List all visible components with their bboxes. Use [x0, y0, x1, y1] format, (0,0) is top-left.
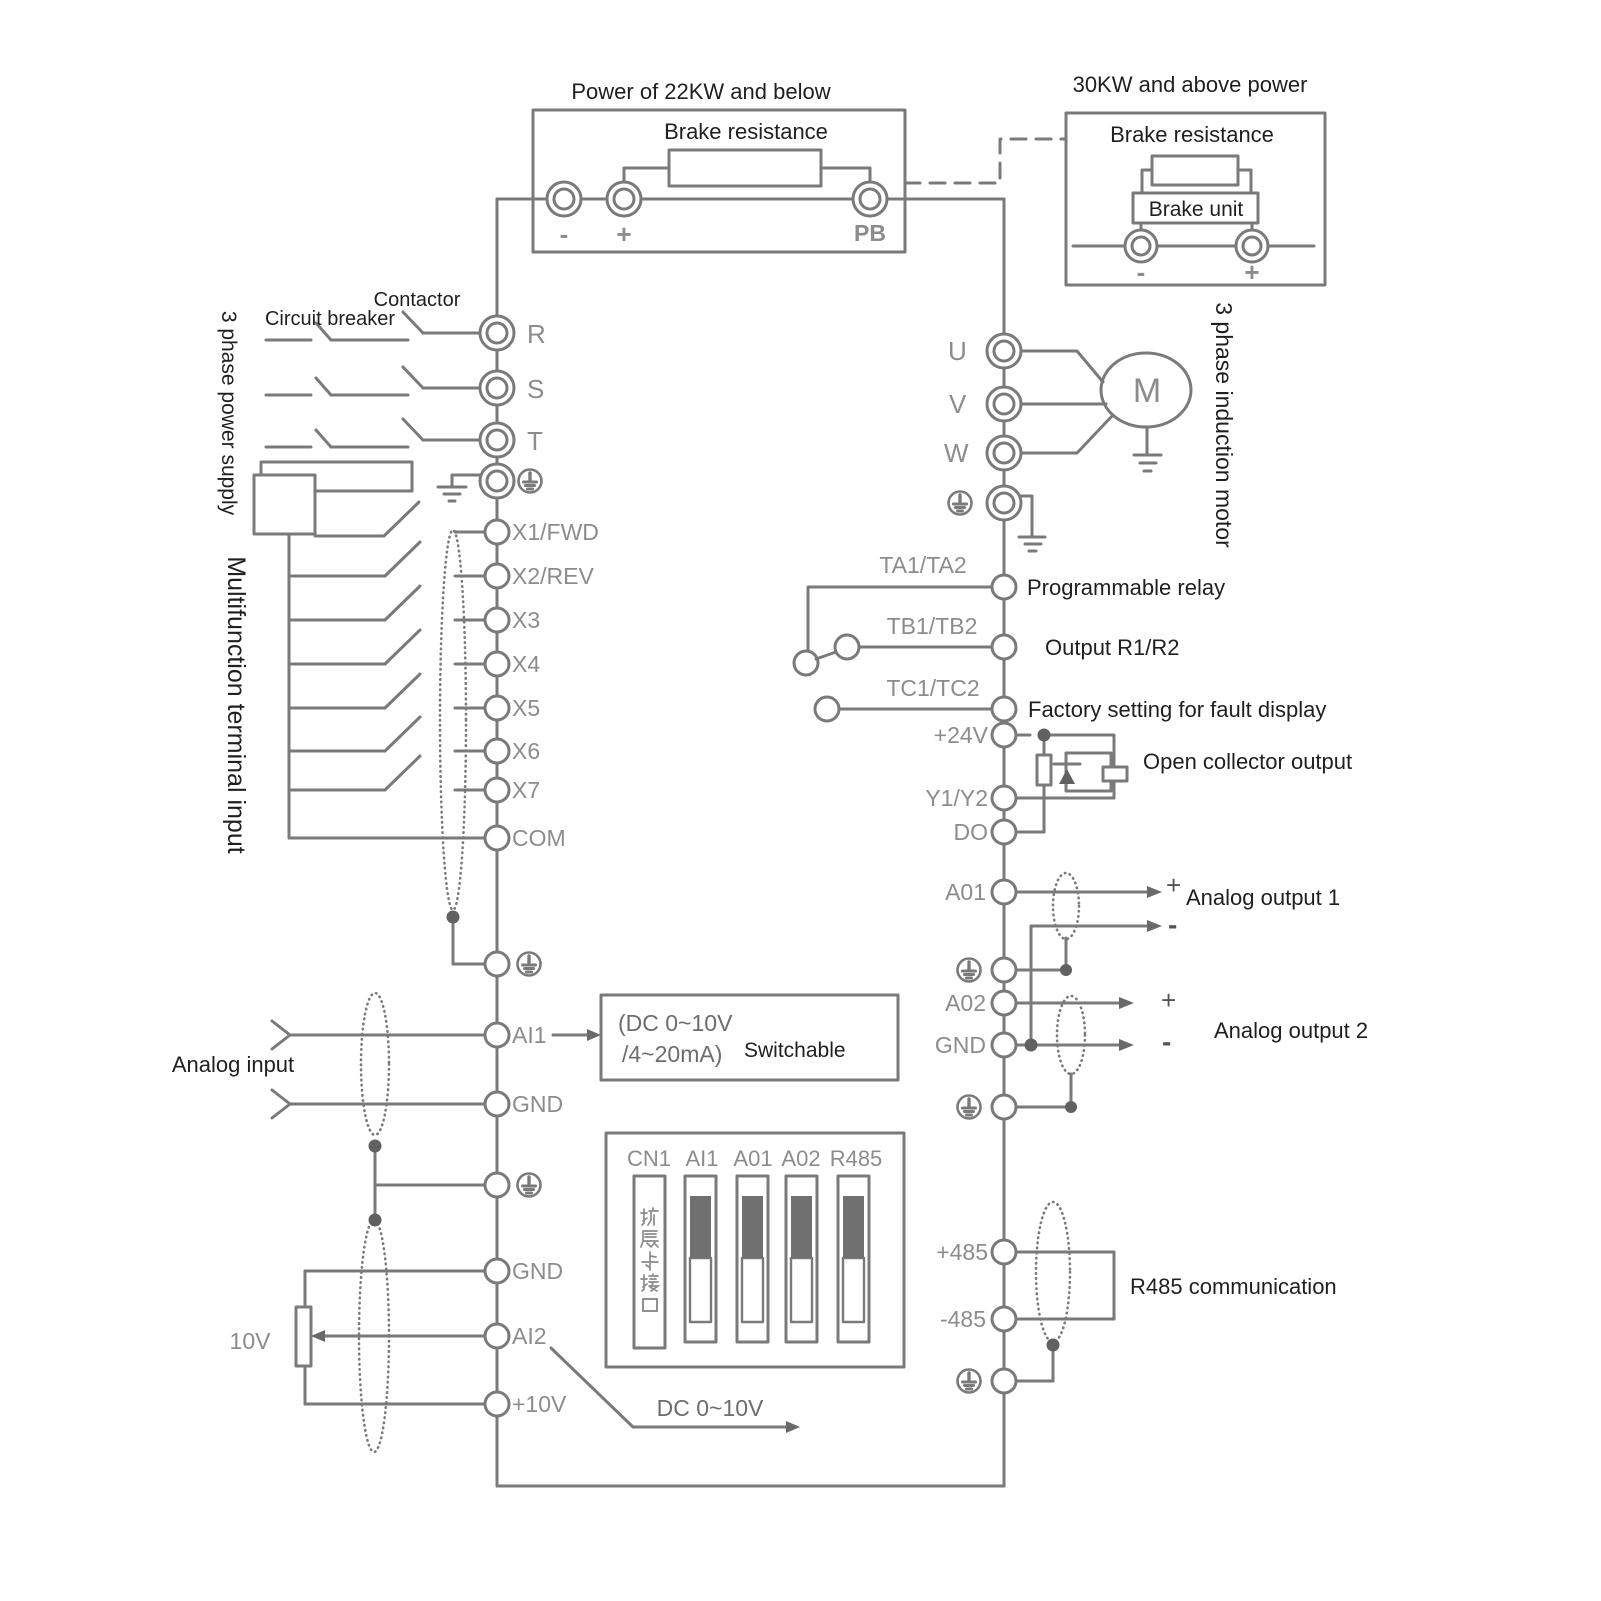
- jumper R485 lower cap: [843, 1258, 864, 1322]
- relay TC contact: [815, 697, 839, 721]
- breaker switch phase T: [266, 446, 311, 449]
- label CN1 chinese ka: [642, 1252, 658, 1270]
- wire open collector top: [1044, 735, 1114, 798]
- terminal brake unit minus: [1125, 230, 1157, 262]
- svg-text:X2/REV: X2/REV: [512, 563, 594, 589]
- terminal A01: [992, 880, 1016, 904]
- shield ellipse analog output 1: [1053, 873, 1079, 939]
- svg-text:GND: GND: [512, 1258, 563, 1284]
- wire bottom bus: [497, 1485, 1004, 1488]
- terminal X3: [485, 608, 509, 632]
- wire shield A01 to earth: [1065, 938, 1068, 970]
- junction dot shield inputs: [447, 911, 460, 924]
- box Power of 22KW and below: [533, 110, 905, 252]
- terminal plus 22KW: [607, 182, 641, 216]
- transistor open collector: [1066, 753, 1111, 791]
- switch X7: [289, 789, 385, 792]
- svg-text:Open collector output: Open collector output: [1143, 749, 1352, 774]
- terminal W: [987, 436, 1021, 470]
- terminal DO: [992, 820, 1016, 844]
- wire relay TC: [839, 708, 992, 711]
- wire dashed link to 30KW box: [905, 139, 1066, 183]
- svg-text:-: -: [560, 219, 569, 249]
- svg-text:Circuit breaker: Circuit breaker: [265, 308, 395, 330]
- wire V to motor: [1020, 403, 1106, 406]
- terminal earth left mid: [485, 952, 509, 976]
- terminal earth input: [480, 464, 514, 498]
- terminal earth output: [987, 486, 1021, 520]
- label CN1 chinese zhan: [641, 1231, 658, 1247]
- terminal PB: [853, 182, 887, 216]
- contactor switch phase T: [403, 419, 423, 440]
- terminal earth right 4: [992, 1369, 1016, 1393]
- svg-text:Brake resistance: Brake resistance: [1110, 122, 1274, 147]
- label CN1 chinese kou: [643, 1299, 657, 1311]
- svg-text:TC1/TC2: TC1/TC2: [886, 675, 979, 701]
- wire U to motor: [1020, 351, 1103, 382]
- svg-text:Factory setting for fault disp: Factory setting for fault display: [1028, 697, 1326, 722]
- svg-text:+: +: [1161, 985, 1176, 1015]
- junction dot shield2 top: [369, 1214, 382, 1227]
- svg-text:A02: A02: [945, 990, 986, 1016]
- junction dot A01 shield: [1060, 964, 1072, 976]
- wire AI2 to DC label: [551, 1348, 788, 1427]
- svg-text:X1/FWD: X1/FWD: [512, 519, 599, 545]
- svg-text:U: U: [948, 336, 967, 366]
- jumper A02 dark plug: [791, 1196, 812, 1258]
- terminal X7: [485, 778, 509, 802]
- earth icon right 3: [958, 1096, 981, 1119]
- svg-text:AI1: AI1: [512, 1022, 547, 1048]
- svg-text:+24V: +24V: [934, 722, 989, 748]
- wire top left to brake minus: [497, 198, 853, 201]
- shield ellipse R485: [1036, 1202, 1070, 1342]
- wire AI1 to switchable box: [553, 1034, 588, 1037]
- terminal +485: [992, 1240, 1016, 1264]
- box DC 0-10V switchable: [601, 995, 898, 1080]
- resistor open collector: [1043, 735, 1046, 755]
- jumper slot CN1: [634, 1176, 665, 1348]
- analog input chevron AI1: [272, 1021, 290, 1049]
- svg-text:3 phase induction motor: 3 phase induction motor: [1211, 302, 1237, 548]
- svg-text:S: S: [527, 374, 544, 404]
- terminal earth right 2: [992, 958, 1016, 982]
- terminal TA1/TA2: [992, 575, 1016, 599]
- svg-text:Power of 22KW and below: Power of 22KW and below: [571, 79, 830, 104]
- shield ellipse analog output 2: [1057, 996, 1085, 1074]
- terminal GND2: [485, 1259, 509, 1283]
- svg-text:30KW and above power: 30KW and above power: [1073, 72, 1308, 97]
- svg-text:10V: 10V: [230, 1328, 272, 1354]
- wire shield1 down link: [374, 1146, 377, 1220]
- shield ellipse analog input 2: [359, 1220, 389, 1452]
- svg-text:(DC 0~10V: (DC 0~10V: [618, 1010, 733, 1036]
- wire brake unit stems: [1140, 223, 1143, 230]
- svg-text:X4: X4: [512, 651, 540, 677]
- relay blade: [816, 652, 836, 659]
- wire brake unit terminal line: [1073, 245, 1314, 248]
- svg-text:/4~20mA): /4~20mA): [622, 1041, 722, 1067]
- motor M: [1101, 353, 1191, 427]
- svg-text:V: V: [949, 389, 967, 419]
- jumper slot A01: [737, 1176, 768, 1342]
- terminal AI2: [485, 1324, 509, 1348]
- label CN1 chinese jie: [641, 1274, 658, 1291]
- contactor switch phase S: [403, 367, 423, 388]
- analog input chevron GND: [272, 1090, 290, 1118]
- switch X5: [289, 707, 385, 710]
- earth icon right 2: [958, 959, 981, 982]
- wire GND2 row: [305, 1270, 485, 1273]
- wire right main bus: [1003, 199, 1006, 1486]
- svg-text:+10V: +10V: [512, 1391, 567, 1417]
- svg-text:W: W: [944, 438, 969, 468]
- svg-text:Output R1/R2: Output R1/R2: [1045, 635, 1180, 660]
- terminal X4: [485, 652, 509, 676]
- svg-text:A01: A01: [733, 1146, 772, 1171]
- jumper slot A02: [786, 1176, 817, 1342]
- arrowhead DC 0-10V: [786, 1421, 800, 1433]
- terminal GND right: [992, 1033, 1016, 1057]
- terminal TB1/TB2: [992, 635, 1016, 659]
- svg-text:-: -: [1137, 257, 1146, 287]
- svg-text:Brake unit: Brake unit: [1149, 198, 1244, 221]
- svg-text:+: +: [616, 219, 631, 249]
- junction dot R485 shield: [1047, 1339, 1060, 1352]
- svg-text:GND: GND: [935, 1032, 986, 1058]
- earth icon left mid: [518, 953, 541, 976]
- box brake unit: [1133, 193, 1258, 223]
- shield ellipse digital inputs: [440, 530, 466, 910]
- relay pole contact: [794, 651, 818, 675]
- svg-text:X3: X3: [512, 607, 540, 633]
- svg-text:-: -: [1162, 1026, 1171, 1057]
- svg-text:3 phase power supply: 3 phase power supply: [217, 311, 240, 516]
- svg-text:GND: GND: [512, 1091, 563, 1117]
- wire W to motor: [1020, 415, 1113, 453]
- wire resistor to PB terminal: [821, 168, 870, 183]
- svg-text:X6: X6: [512, 738, 540, 764]
- wire plus terminal to resistor: [624, 168, 669, 183]
- earth icon output side: [949, 492, 972, 515]
- wire AI2 row: [318, 1335, 485, 1338]
- transistor arrow: [1059, 769, 1075, 784]
- jumper A01 lower cap: [742, 1258, 763, 1322]
- svg-text:A01: A01: [945, 879, 986, 905]
- svg-text:Switchable: Switchable: [744, 1039, 846, 1062]
- svg-text:R: R: [527, 319, 546, 349]
- svg-text:-485: -485: [940, 1306, 986, 1332]
- svg-text:+: +: [1166, 870, 1181, 900]
- svg-text:TA1/TA2: TA1/TA2: [879, 552, 966, 578]
- svg-text:-: -: [1168, 909, 1177, 940]
- terminal V: [987, 387, 1021, 421]
- svg-text:Analog output 1: Analog output 1: [1186, 885, 1340, 910]
- wire DO row: [1016, 831, 1044, 834]
- wire A01 minus drop: [1030, 926, 1033, 1045]
- svg-text:Multifunction terminal input: Multifunction terminal input: [222, 556, 250, 853]
- jumper AI1 dark plug: [690, 1196, 711, 1258]
- wire +10V row: [305, 1403, 485, 1406]
- svg-text:X5: X5: [512, 695, 540, 721]
- svg-text:Analog output 2: Analog output 2: [1214, 1018, 1368, 1043]
- load resistor open collector: [1103, 767, 1127, 781]
- relay TB contact: [835, 635, 859, 659]
- supply filter square: [254, 475, 315, 534]
- wire GND input: [290, 1103, 485, 1106]
- arrowhead analog out1 minus: [1147, 920, 1162, 932]
- junction dot A02 shield: [1065, 1101, 1077, 1113]
- terminal GND1: [485, 1092, 509, 1116]
- switch X4: [289, 663, 385, 666]
- motor ground stem: [1146, 427, 1149, 455]
- resistor brake resistance 22KW: [669, 150, 821, 186]
- terminal minus 22KW: [547, 182, 581, 216]
- box 30KW and above power: [1066, 113, 1325, 285]
- wire AI1 input: [290, 1034, 485, 1037]
- wire PB to right bus: [887, 198, 1004, 201]
- breaker switch phase R: [266, 339, 311, 342]
- wire pot bottom: [304, 1366, 307, 1404]
- svg-text:Analog input: Analog input: [172, 1052, 294, 1077]
- terminal -485: [992, 1307, 1016, 1331]
- terminal Y1/Y2: [992, 786, 1016, 810]
- svg-text:TB1/TB2: TB1/TB2: [887, 613, 978, 639]
- breaker switch phase S: [266, 394, 311, 397]
- terminal +10V: [485, 1392, 509, 1416]
- wire relay TB: [859, 646, 992, 649]
- supply filter rectangle: [261, 462, 412, 491]
- label CN1 chinese kuo: [641, 1208, 658, 1225]
- wire shield to earth mid: [375, 1184, 485, 1187]
- earth icon input side: [519, 470, 542, 493]
- wire relay TA: [808, 587, 992, 651]
- arrowhead analog out2 plus: [1119, 997, 1134, 1009]
- jumper slot R485: [838, 1176, 869, 1342]
- terminal COM: [485, 826, 509, 850]
- wire resistor to brake unit right: [1238, 170, 1251, 193]
- junction dot +24V: [1038, 729, 1051, 742]
- earth icon left 3: [518, 1174, 541, 1197]
- wire Y1/Y2 row: [1016, 797, 1114, 800]
- terminal X1/FWD: [485, 520, 509, 544]
- svg-text:CN1: CN1: [627, 1146, 671, 1171]
- wire A02 minus: [1016, 1044, 1120, 1047]
- svg-text:M: M: [1133, 372, 1161, 410]
- wire left main bus: [496, 199, 499, 1486]
- contactor switch phase R: [403, 312, 423, 333]
- junction dot GND A02: [1025, 1039, 1038, 1052]
- jumper R485 dark plug: [843, 1196, 864, 1258]
- wire A01 minus: [1031, 925, 1148, 928]
- svg-text:COM: COM: [512, 825, 566, 851]
- switch X3: [289, 619, 385, 622]
- terminal brake unit plus: [1236, 230, 1268, 262]
- terminal X2/REV: [485, 564, 509, 588]
- svg-text:Programmable relay: Programmable relay: [1027, 575, 1225, 600]
- switch X2: [289, 575, 385, 578]
- terminal U: [987, 334, 1021, 368]
- svg-text:PB: PB: [854, 220, 886, 246]
- switch X6: [289, 750, 385, 753]
- terminal AI1: [485, 1023, 509, 1047]
- svg-text:Y1/Y2: Y1/Y2: [925, 785, 988, 811]
- terminal +24V: [992, 723, 1016, 747]
- earth icon right 4: [958, 1370, 981, 1393]
- arrowhead analog out1 plus: [1147, 886, 1162, 898]
- wire resistor to brake unit left: [1142, 170, 1152, 193]
- shield ellipse analog input 1: [361, 993, 389, 1135]
- resistor brake resistance 30KW: [1152, 156, 1238, 185]
- jumper A01 dark plug: [742, 1196, 763, 1258]
- svg-text:A02: A02: [781, 1146, 820, 1171]
- potentiometer 10V: [296, 1307, 311, 1366]
- svg-text:DC 0~10V: DC 0~10V: [657, 1395, 764, 1421]
- motor ground symbol: [1134, 454, 1161, 457]
- jumper AI1 lower cap: [690, 1258, 711, 1322]
- jumper A02 lower cap: [791, 1258, 812, 1322]
- svg-text:T: T: [527, 426, 543, 456]
- terminal S: [480, 371, 514, 405]
- box jumper panel: [606, 1133, 904, 1367]
- terminal earth right 3: [992, 1095, 1016, 1119]
- wire +485: [1016, 1252, 1114, 1319]
- terminal A02: [992, 991, 1016, 1015]
- svg-text:AI2: AI2: [512, 1323, 547, 1349]
- wire shield R485 to earth: [1052, 1345, 1055, 1381]
- wire +24V dash: [1016, 734, 1030, 737]
- terminal earth left 3: [485, 1173, 509, 1197]
- wire -485: [1016, 1318, 1114, 1321]
- svg-text:R485: R485: [830, 1146, 883, 1171]
- wire shield A02 to earth: [1070, 1074, 1073, 1107]
- switch X1: [315, 535, 384, 538]
- svg-text:AI1: AI1: [685, 1146, 718, 1171]
- svg-text:DO: DO: [954, 819, 989, 845]
- terminal T: [480, 423, 514, 457]
- ground output symbol: [1019, 536, 1045, 539]
- arrowhead analog out2 minus: [1119, 1039, 1134, 1051]
- terminal TC1/TC2: [992, 697, 1016, 721]
- ground input symbol: [438, 486, 466, 489]
- terminal R: [480, 316, 514, 350]
- svg-text:+485: +485: [936, 1239, 988, 1265]
- jumper slot AI1: [685, 1176, 716, 1342]
- wire multifunction left bus: [288, 534, 291, 838]
- svg-text:Brake resistance: Brake resistance: [664, 119, 828, 144]
- svg-text:X7: X7: [512, 777, 540, 803]
- junction dot shield1 bottom: [369, 1140, 382, 1153]
- ground input wire: [452, 475, 480, 487]
- wire A01 plus: [1016, 891, 1148, 894]
- wire shield to earth: [453, 917, 485, 964]
- svg-text:R485 communication: R485 communication: [1130, 1274, 1337, 1299]
- wire pot top: [304, 1271, 307, 1307]
- wire earth output: [1019, 496, 1032, 537]
- terminal X6: [485, 739, 509, 763]
- svg-text:+: +: [1244, 257, 1259, 287]
- arrowhead AI1 to box: [587, 1029, 601, 1041]
- terminal X5: [485, 696, 509, 720]
- wire COM: [289, 837, 485, 840]
- arrowhead pot wiper: [311, 1330, 325, 1342]
- wire A02 plus: [1016, 1002, 1120, 1005]
